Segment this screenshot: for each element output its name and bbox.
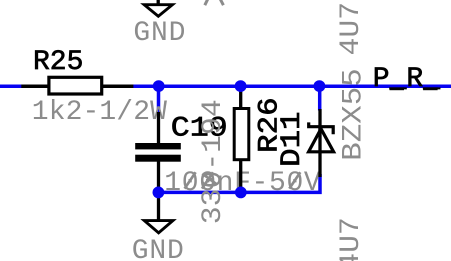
- capacitor C19 top pin: [157, 112, 160, 144]
- ground symbol bottom triangle: [144, 221, 173, 233]
- svg-text:1k2-1/2W: 1k2-1/2W: [32, 97, 167, 128]
- junction node bottom R26: [235, 187, 247, 199]
- svg-text:330-194: 330-194: [197, 99, 229, 224]
- slash marks on zeros of 100nF-50V: [185, 172, 196, 188]
- svg-text:4U7: 4U7: [335, 2, 367, 56]
- wire bottom net C19 to D11 with corner up to D11 anode: [157, 174, 320, 192]
- diode D11 triangle anode: [309, 129, 334, 152]
- wire vertical net from top rail to D11: [318, 86, 322, 111]
- svg-text:4U7: 4U7: [335, 217, 367, 261]
- ground symbol top stub wire: [157, 0, 160, 4]
- wire vertical net from top rail to C19: [157, 86, 161, 114]
- svg-text:R25: R25: [33, 47, 83, 78]
- svg-text:D11: D11: [275, 111, 307, 166]
- resistor R25 left lead: [21, 84, 48, 88]
- svg-text:P_R_: P_R_: [373, 64, 440, 95]
- partial glyph fragment top edge: [205, 0, 224, 5]
- svg-text:GND: GND: [132, 236, 185, 261]
- resistor R26 body: [234, 109, 249, 160]
- underscore thickening for P_R_: [390, 87, 405, 90]
- wire net P_R_ horizontal top rail: [0, 84, 451, 88]
- ground symbol top triangle: [144, 5, 172, 17]
- capacitor C19 bottom pin down to GND: [157, 161, 160, 220]
- junction node bottom C19: [153, 187, 165, 199]
- diode D11 zener cathode bar with bent ends: [309, 122, 334, 134]
- capacitor C19 bottom plate: [135, 155, 181, 162]
- resistor R25 right lead: [102, 84, 133, 88]
- slash mark on zero of 330-194 rotated: [202, 174, 217, 185]
- svg-text:GND: GND: [133, 18, 186, 49]
- capacitor C19 top plate: [135, 143, 181, 149]
- resistor R25 body: [49, 77, 102, 94]
- svg-text:BZX55: BZX55: [337, 68, 369, 160]
- resistor R26 top pin: [239, 86, 242, 109]
- diode D11 vertical pin line: [318, 109, 321, 177]
- junction node top D11: [314, 80, 326, 92]
- resistor R26 bottom pin: [239, 160, 242, 193]
- junction node top C19: [153, 80, 165, 92]
- junction node top R26: [235, 80, 247, 92]
- redraw vertical through triangle: [318, 128, 321, 151]
